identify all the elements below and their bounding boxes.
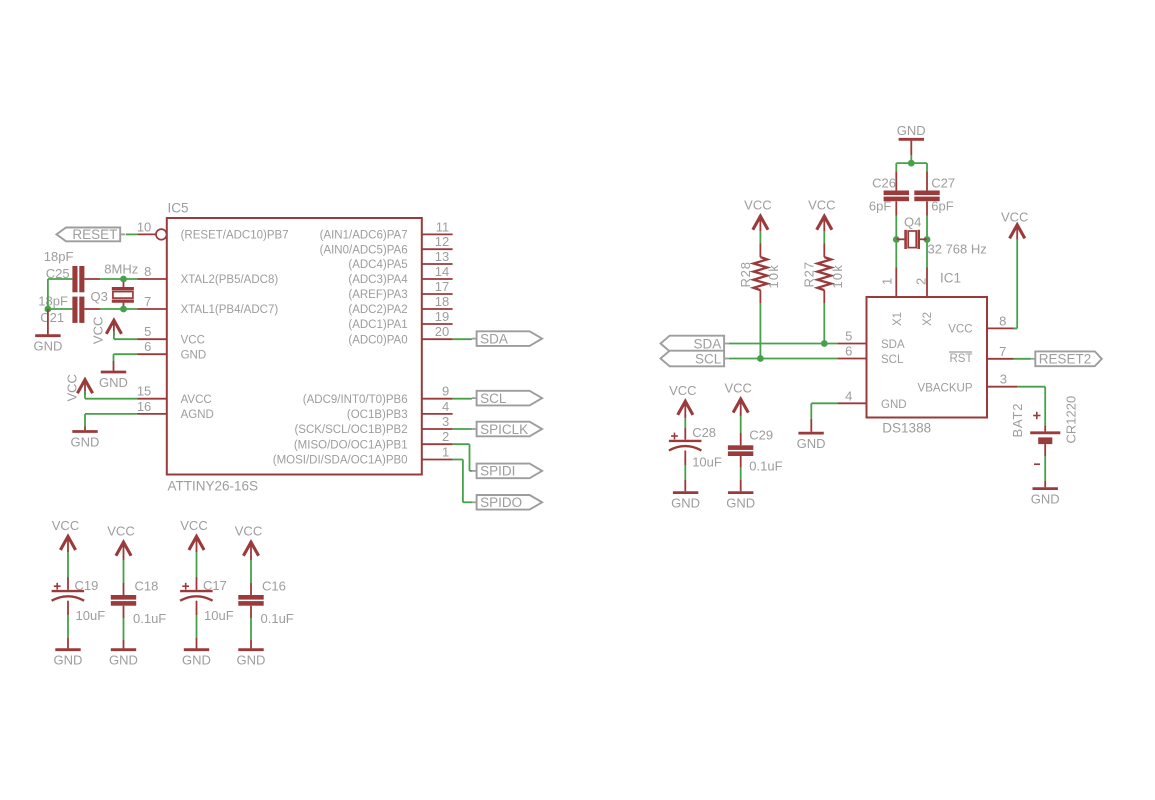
wire VCC to C18 <box>123 556 125 560</box>
power VCC above C19 <box>60 536 75 550</box>
flag SDA input <box>724 343 729 345</box>
power VCC above C28 <box>678 401 693 415</box>
svg-text:0.1uF: 0.1uF <box>749 458 782 473</box>
svg-text:C27: C27 <box>931 175 955 190</box>
ground for IC5 pin 6 <box>114 353 138 355</box>
capacitor C29 <box>728 445 753 450</box>
svg-text:AGND: AGND <box>181 409 214 421</box>
svg-text:4: 4 <box>845 388 852 403</box>
svg-text:VCC: VCC <box>724 381 751 396</box>
ground below C25/C21 <box>47 309 49 334</box>
svg-text:GND: GND <box>109 653 138 668</box>
junction GND/C26/C27 <box>908 160 915 167</box>
svg-text:GND: GND <box>881 399 907 411</box>
IC1 pin 5 stub <box>837 343 866 345</box>
svg-text:IC1: IC1 <box>940 270 961 285</box>
flag SPIDO output <box>472 501 477 503</box>
svg-text:VCC: VCC <box>744 198 771 213</box>
svg-text:3: 3 <box>1000 372 1007 387</box>
wire VCC to C28 <box>684 415 686 418</box>
junction R27/SDA <box>821 340 828 347</box>
svg-text:10uF: 10uF <box>204 608 234 623</box>
svg-text:VCC: VCC <box>669 383 696 398</box>
wire net RESET2 <box>1014 358 1031 360</box>
wire VCC to pin 15 <box>84 391 86 399</box>
wire VCC to C16 <box>250 556 252 560</box>
svg-text:VBACKUP: VBACKUP <box>918 382 973 394</box>
svg-text:10k: 10k <box>766 264 781 289</box>
svg-text:8: 8 <box>999 313 1006 328</box>
wire battery to ground <box>1044 444 1046 456</box>
svg-text:VCC: VCC <box>235 524 262 539</box>
svg-text:VCC: VCC <box>181 334 205 346</box>
wire R28 lower lead <box>759 290 761 303</box>
junction XTAL2/C25/Q3 <box>120 276 127 283</box>
flag RESET input <box>120 233 125 235</box>
IC5 pin 10 (RESET/ADC10)PB7 stub with inversion circle <box>138 233 156 235</box>
capacitor C28 polarized <box>671 435 678 437</box>
junction XTAL1/C21/Q3 <box>120 306 127 313</box>
flag SPICLK output <box>472 428 477 430</box>
power VCC above C18 <box>116 542 131 556</box>
svg-text:32 768 Hz: 32 768 Hz <box>928 242 987 257</box>
svg-text:(ADC3)PA4: (ADC3)PA4 <box>348 274 408 286</box>
svg-text:7: 7 <box>144 294 151 309</box>
svg-text:5: 5 <box>845 329 852 344</box>
ground below C17 <box>184 648 209 651</box>
svg-text:6pF: 6pF <box>869 198 891 213</box>
resistor R27 10k <box>817 257 831 290</box>
svg-text:GND: GND <box>1031 492 1060 507</box>
wire net SPIDO from pin 1 <box>453 459 463 461</box>
svg-text:7: 7 <box>999 344 1006 359</box>
capacitor C17 polarized <box>182 585 189 587</box>
svg-text:(ADC0)PA0: (ADC0)PA0 <box>348 334 407 346</box>
junction node X2 <box>924 236 931 243</box>
svg-text:GND: GND <box>182 653 211 668</box>
svg-text:CR1220: CR1220 <box>1064 396 1079 444</box>
svg-text:ATTINY26-16S: ATTINY26-16S <box>168 479 259 494</box>
IC IC1 DS1388 body <box>867 297 988 418</box>
svg-text:14: 14 <box>435 264 449 279</box>
wire net SPICLK from pin 3 <box>453 428 472 430</box>
svg-text:10uF: 10uF <box>692 454 722 469</box>
wire net RESET <box>126 233 138 235</box>
IC5 pin 13 stub <box>422 263 453 265</box>
svg-text:Q3: Q3 <box>91 289 108 304</box>
svg-text:SDA: SDA <box>881 339 905 351</box>
IC5 pin 15 stub <box>138 398 167 400</box>
svg-text:20: 20 <box>435 324 449 339</box>
wire VCC to C17 <box>196 550 198 552</box>
capacitor C18 <box>111 595 136 600</box>
wire Q3 bottom lead <box>123 303 125 309</box>
IC5 pin 8 stub <box>138 278 167 280</box>
power VCC above C17 <box>189 536 204 550</box>
svg-text:C21: C21 <box>40 310 64 325</box>
svg-text:VCC: VCC <box>180 518 207 533</box>
svg-text:10: 10 <box>137 219 151 234</box>
svg-text:GND: GND <box>726 496 755 511</box>
svg-text:4: 4 <box>442 399 449 414</box>
svg-text:9: 9 <box>442 384 449 399</box>
svg-text:(OC1B)PB3: (OC1B)PB3 <box>347 409 408 421</box>
minus mark <box>1034 463 1040 465</box>
wire C28 to ground <box>684 451 686 466</box>
wire VCC to pin 8 <box>1016 239 1018 329</box>
svg-text:VCC: VCC <box>52 518 79 533</box>
wire VCC to pin 5 <box>113 331 115 339</box>
svg-text:SPICLK: SPICLK <box>480 422 528 437</box>
wire R27 lower lead <box>823 290 825 303</box>
capacitor C19 polarized <box>54 585 61 587</box>
svg-text:VCC: VCC <box>1001 209 1028 224</box>
svg-text:0.1uF: 0.1uF <box>133 611 166 626</box>
wire C19 to ground <box>67 601 69 615</box>
wire net SCL from pin 9 <box>453 398 472 400</box>
svg-text:XTAL2(PB5/ADC8): XTAL2(PB5/ADC8) <box>181 274 279 286</box>
IC5 pin 20 stub <box>422 338 453 340</box>
junction C21 left/GND <box>45 306 52 313</box>
IC5 pin 7 stub <box>138 308 167 310</box>
IC5 pin 3 stub <box>422 428 453 430</box>
svg-text:VCC: VCC <box>91 317 106 344</box>
svg-text:GND: GND <box>181 349 207 361</box>
svg-text:18pF: 18pF <box>44 249 74 264</box>
flag SCL output <box>472 397 477 399</box>
IC5 pin 4 stub <box>422 413 453 415</box>
svg-text:R27: R27 <box>802 261 817 287</box>
flag SDA output <box>472 338 477 340</box>
svg-text:(SCK/SCL/OC1B)PB2: (SCK/SCL/OC1B)PB2 <box>294 424 407 436</box>
svg-text:C16: C16 <box>262 579 286 594</box>
svg-text:GND: GND <box>897 123 926 138</box>
ground for IC5 pin 16 AGND <box>85 413 138 415</box>
svg-text:8MHz: 8MHz <box>104 262 138 277</box>
svg-text:C17: C17 <box>203 578 227 593</box>
IC1 pin 4 stub <box>837 402 866 404</box>
svg-text:RST: RST <box>950 353 973 365</box>
IC1 pin 3 stub <box>987 386 1017 388</box>
power VCC above C16 <box>243 542 258 556</box>
capacitor C25 (vertical plates) <box>72 266 77 292</box>
flag RESET2 output <box>1031 358 1036 360</box>
svg-text:5: 5 <box>144 324 151 339</box>
wire X2 node to IC1 pin 2 <box>926 240 928 268</box>
power VCC above R27 <box>817 216 832 230</box>
IC1 pin 6 stub <box>837 358 866 360</box>
svg-text:1: 1 <box>442 445 449 460</box>
wire C26/C27 tops to ground <box>896 162 927 164</box>
wire X1 node to IC1 pin 1 <box>895 240 897 268</box>
IC1 pin 7 stub <box>987 358 1014 360</box>
power VCC for IC5 pin 15 AVCC <box>77 380 92 394</box>
wire VCC to R28 <box>759 231 761 244</box>
IC5 pin 19 stub <box>422 323 453 325</box>
ground for IC1 pin 4 <box>811 402 837 404</box>
svg-text:RESET2: RESET2 <box>1039 352 1092 367</box>
svg-text:(AIN0/ADC5)PA6: (AIN0/ADC5)PA6 <box>320 244 408 256</box>
wire Q3 top lead <box>123 279 125 287</box>
wire VCC to R27 <box>823 231 825 244</box>
svg-text:SCL: SCL <box>480 391 507 406</box>
resistor R28 10k <box>754 257 768 290</box>
svg-text:10uF: 10uF <box>76 608 106 623</box>
svg-text:8: 8 <box>144 264 151 279</box>
power VCC above R28 <box>753 216 768 230</box>
svg-text:1: 1 <box>880 278 895 285</box>
svg-text:18pF: 18pF <box>38 294 68 309</box>
IC5 pin 9 stub <box>422 398 453 400</box>
wire net SPIDI from pin 2 <box>453 443 470 445</box>
wire net SCL to IC1 pin 6 <box>729 358 837 360</box>
IC1 pin 8 stub <box>987 327 1017 329</box>
wire crystal left vertical to ground <box>47 279 49 309</box>
IC5 pin 12 stub <box>422 248 453 250</box>
svg-text:11: 11 <box>436 219 450 234</box>
svg-text:X2: X2 <box>922 312 934 326</box>
svg-text:SDA: SDA <box>480 331 508 346</box>
svg-text:2: 2 <box>442 429 449 444</box>
svg-text:GND: GND <box>797 436 826 451</box>
svg-text:13: 13 <box>435 249 449 264</box>
IC5 pin 11 stub <box>422 233 453 235</box>
wire VBACKUP net to battery <box>1017 386 1045 388</box>
svg-text:C19: C19 <box>75 578 99 593</box>
svg-text:XTAL1(PB4/ADC7): XTAL1(PB4/ADC7) <box>181 304 279 316</box>
ground below C16 <box>238 648 263 651</box>
svg-text:GND: GND <box>237 653 266 668</box>
svg-text:VCC: VCC <box>948 324 972 336</box>
svg-text:VCC: VCC <box>65 374 80 401</box>
IC5 pin 1 stub <box>422 459 453 461</box>
power VCC for IC5 pin 5 <box>106 320 121 334</box>
capacitor C27 <box>914 191 939 196</box>
svg-text:10k: 10k <box>830 264 845 289</box>
svg-text:GND: GND <box>71 435 100 450</box>
ground below C29 <box>728 491 753 494</box>
ground below C28 <box>673 491 698 494</box>
wire C18 to ground <box>123 606 125 618</box>
wire C29 to ground <box>740 456 742 467</box>
plus mark <box>1033 415 1040 417</box>
svg-text:RESET: RESET <box>72 227 117 242</box>
power VCC for IC1 pin 8 <box>1010 225 1025 239</box>
svg-text:(ADC2)PA2: (ADC2)PA2 <box>348 304 407 316</box>
svg-text:17: 17 <box>435 279 449 294</box>
IC5 pin 2 stub <box>422 443 453 445</box>
svg-text:SCL: SCL <box>881 354 904 366</box>
svg-text:DS1388: DS1388 <box>882 420 931 435</box>
junction node X1 <box>893 236 900 243</box>
wire net SDA to IC1 pin 5 <box>729 343 837 345</box>
svg-text:2: 2 <box>913 278 928 285</box>
svg-text:BAT2: BAT2 <box>1010 403 1025 438</box>
IC5 pin 17 stub <box>422 293 453 295</box>
wire XTAL2 net (pin 8 row) <box>48 278 73 280</box>
svg-text:AVCC: AVCC <box>181 394 212 406</box>
wire XTAL1 net (pin 7 row) <box>48 308 73 310</box>
svg-text:C18: C18 <box>135 579 159 594</box>
svg-text:R28: R28 <box>738 261 753 287</box>
IC5 pin 16 stub <box>138 413 167 415</box>
svg-text:VCC: VCC <box>107 524 134 539</box>
svg-text:GND: GND <box>99 375 128 390</box>
svg-text:18: 18 <box>435 294 449 309</box>
IC5 pin 14 stub <box>422 278 453 280</box>
svg-text:(AREF)PA3: (AREF)PA3 <box>348 289 407 301</box>
svg-text:19: 19 <box>435 309 449 324</box>
IC5 pin 6 stub <box>138 353 167 355</box>
capacitor C16 <box>238 595 263 600</box>
svg-text:IC5: IC5 <box>168 201 189 216</box>
wire C26 to X1 node <box>895 201 897 215</box>
svg-text:6: 6 <box>845 344 852 359</box>
svg-text:C26: C26 <box>872 175 896 190</box>
svg-text:SDA: SDA <box>694 336 722 351</box>
capacitor C26 <box>884 191 909 196</box>
svg-text:(RESET/ADC10)PB7: (RESET/ADC10)PB7 <box>181 230 289 242</box>
svg-text:6: 6 <box>144 339 151 354</box>
svg-text:3: 3 <box>442 414 449 429</box>
svg-text:Q4: Q4 <box>904 214 921 229</box>
crystal Q3 8MHz <box>112 287 134 290</box>
wire C27 to X2 node <box>926 201 928 215</box>
wire net SDA from pin 20 <box>453 338 472 340</box>
battery BAT2 CR1220 <box>1030 431 1060 434</box>
ground below C19 <box>55 648 80 651</box>
svg-text:SPIDO: SPIDO <box>480 495 522 510</box>
svg-text:X1: X1 <box>892 312 904 326</box>
ground below C18 <box>111 648 136 651</box>
crystal Q4 32.768kHz <box>896 238 904 240</box>
wire C16 to ground <box>250 606 252 618</box>
wire VCC to C19 <box>67 550 69 552</box>
junction R28/SCL <box>757 355 764 362</box>
svg-text:SPIDI: SPIDI <box>480 464 515 479</box>
svg-text:15: 15 <box>137 384 151 399</box>
svg-text:(ADC4)PA5: (ADC4)PA5 <box>348 259 407 271</box>
svg-text:C29: C29 <box>749 428 773 443</box>
svg-text:GND: GND <box>671 496 700 511</box>
wire C17 to ground <box>196 601 198 615</box>
svg-text:(AIN1/ADC6)PA7: (AIN1/ADC6)PA7 <box>320 230 408 242</box>
IC IC5 ATTINY26-16S body <box>167 218 422 475</box>
svg-text:VCC: VCC <box>808 198 835 213</box>
svg-text:6pF: 6pF <box>931 198 953 213</box>
svg-text:12: 12 <box>435 234 449 249</box>
IC5 pin 5 stub <box>138 338 167 340</box>
svg-text:(MOSI/DI/SDA/OC1A)PB0: (MOSI/DI/SDA/OC1A)PB0 <box>273 455 408 467</box>
svg-text:0.1uF: 0.1uF <box>261 611 294 626</box>
svg-text:C28: C28 <box>692 425 716 440</box>
IC5 pin 18 stub <box>422 308 453 310</box>
svg-text:(MISO/DO/OC1A)PB1: (MISO/DO/OC1A)PB1 <box>294 439 408 451</box>
capacitor C21 (vertical plates) <box>72 297 77 323</box>
ground below battery <box>1033 487 1058 490</box>
svg-text:16: 16 <box>137 399 151 414</box>
power VCC above C29 <box>733 399 748 413</box>
flag SCL input <box>724 358 729 360</box>
svg-text:(ADC1)PA1: (ADC1)PA1 <box>348 319 407 331</box>
flag SPIDI output <box>472 470 477 472</box>
wire VCC to C29 <box>740 413 742 416</box>
svg-text:(ADC9/INT0/T0)PB6: (ADC9/INT0/T0)PB6 <box>303 394 408 406</box>
svg-text:SCL: SCL <box>695 351 722 366</box>
svg-text:GND: GND <box>54 653 83 668</box>
svg-text:GND: GND <box>33 339 62 354</box>
